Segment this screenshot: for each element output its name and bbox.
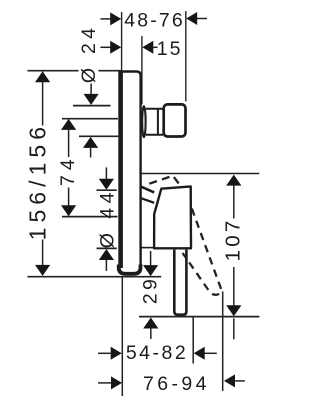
svg-text:29: 29: [139, 276, 161, 304]
svg-text:Ø 44: Ø 44: [97, 188, 119, 248]
svg-text:156/156: 156/156: [24, 122, 50, 241]
svg-text:74: 74: [57, 155, 79, 186]
svg-text:76-94: 76-94: [143, 373, 210, 395]
svg-text:15: 15: [157, 38, 183, 60]
svg-text:Ø 24: Ø 24: [78, 24, 100, 83]
svg-text:107: 107: [222, 217, 245, 261]
svg-text:48-76: 48-76: [124, 9, 185, 31]
svg-text:54-82: 54-82: [126, 342, 188, 364]
